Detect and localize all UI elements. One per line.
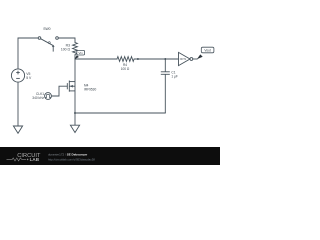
node Vout flag [197,47,214,59]
ground (left, under V5) [13,126,22,133]
wire V5 top to switch [18,38,38,69]
capacitor C1 [161,59,170,113]
svg-text:1 µF: 1 µF [171,75,177,79]
wire R4 to inverter input [136,58,178,60]
inverter U1 [179,52,193,65]
resistor R4 [117,57,136,62]
resistor R3 [73,43,78,57]
svg-text:http://circuitlab.com/c/953daa: http://circuitlab.com/c/953daacdac58 [48,157,95,161]
transistor M4 [67,81,75,92]
svg-text:Vout: Vout [204,49,210,53]
wire node Vin down through M4 to bottom junction and ground [74,59,76,125]
wire inverter output to Vout [193,58,197,60]
wire CLK1 to M4 gate [51,86,67,96]
svg-text:100 Ω: 100 Ω [61,48,71,52]
junction after R4 [137,58,139,60]
svg-text:100 Ω: 100 Ω [121,67,130,71]
junction at bottom rail [74,112,76,114]
wire bottom rail capacitor to junction [75,112,165,114]
svg-text:5 V: 5 V [26,76,32,80]
footer attribution text [48,153,95,162]
svg-text:IRF9530: IRF9530 [84,87,96,91]
switch SW0 [38,37,58,52]
wire V5 bottom to ground [17,82,19,126]
wire switch to R3 top [58,38,75,43]
svg-text:340 kHz: 340 kHz [32,96,44,100]
svg-text:NOT1: NOT1 [180,58,187,61]
svg-text:LAB: LAB [30,157,40,162]
wire R3 bottom to node Vin [74,56,76,59]
svg-text:SW0: SW0 [43,27,50,31]
svg-text:Vin: Vin [79,51,84,55]
clock source CLK1 [45,93,52,100]
wire node Vin to R4 [75,58,117,60]
CircuitLab logo [7,153,42,162]
node Vin flag [75,50,85,59]
junction at capacitor top [164,58,166,60]
voltage source V5 [11,69,24,82]
footer bar [0,147,220,165]
ground (right, under M4 source) [70,125,79,132]
svg-text:duranter172 / SE Debouncer: duranter172 / SE Debouncer [48,153,88,157]
